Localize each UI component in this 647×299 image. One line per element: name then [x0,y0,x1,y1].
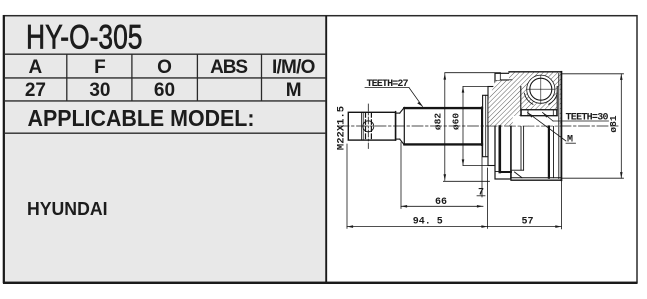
column line A|F [66,54,68,101]
thread dashed line left [365,113,367,140]
band bottom inner line [495,171,511,173]
svg-text:ABS: ABS [210,57,248,78]
svg-text:94. 5: 94. 5 [413,216,443,227]
bore wall lower right thick [548,127,550,178]
teeth=30 leader [553,120,609,122]
bell top edge [509,71,561,73]
table row line under header [4,77,326,79]
cage edge lower left 2 [523,127,525,171]
bell housing hatched section [488,72,561,126]
bore bottom [500,171,511,173]
bottom border thick [3,282,638,284]
ball cross vertical [540,76,542,104]
threaded stub body [348,112,395,140]
shaft end face [481,108,483,146]
lower chamfer [515,172,523,178]
dia60 extension top [463,86,488,88]
thread line 2 [362,113,364,140]
svg-text:HYUNDAI: HYUNDAI [27,198,108,219]
race bottom white band [521,110,556,116]
svg-text:TEETH=27: TEETH=27 [367,79,409,90]
race right face [556,87,558,116]
cavity white below race [513,116,559,126]
column line F|O [131,54,133,101]
ball [530,78,552,100]
svg-text:APPLICABLE MODEL:: APPLICABLE MODEL: [28,105,255,131]
race band line [521,109,557,111]
svg-text:M: M [567,135,573,146]
boot rib 1 [483,95,488,156]
94.5 dimension line [347,226,488,228]
66 dimension line [401,205,483,207]
bell bottom inner edge [511,177,562,179]
taper bottom [400,139,405,145]
7 extension left [481,145,483,197]
thread dashed line right [370,113,372,140]
svg-text:7: 7 [478,187,484,198]
dia81 dimension line [620,74,622,178]
svg-text:M: M [286,80,302,101]
dia82 dimension line [444,73,446,180]
teeth=27 leader [365,87,409,89]
7 underline [477,195,485,197]
left table panel gray background [4,16,326,282]
7 extension right [487,168,489,228]
cage lower shelf [511,169,524,171]
spline bore wall right thick [510,127,512,178]
svg-text:ø60: ø60 [451,113,462,130]
svg-text:ø82: ø82 [433,113,444,130]
svg-text:66: 66 [435,197,447,208]
57 extension right [560,181,562,229]
ball cross horizontal [527,88,555,90]
cage edge lower left 1 [520,127,522,171]
svg-text:ø81: ø81 [608,115,619,132]
panel divider [325,16,327,283]
svg-text:M22X1.5: M22X1.5 [336,106,348,150]
race band bottom [521,115,557,117]
svg-text:O: O [157,57,172,78]
dia82 bottom extension [443,180,489,182]
dia81 extension top [561,73,623,75]
thread circle mark [363,121,374,132]
stub vertical centerline [367,104,369,149]
bell right face [560,72,562,180]
57 dimension line [488,226,562,228]
dia60 dimension line [462,87,464,166]
M leader [566,142,576,144]
dia81 extension bottom [561,177,623,179]
dia60 extension bottom [463,165,488,167]
race left face [520,87,522,116]
table row line under title [4,53,326,55]
svg-text:30: 30 [89,80,110,101]
race sphere arc right [549,93,558,104]
bell right inner line [558,74,560,179]
spline bore wall left thick [498,127,501,173]
spline top thick edge [404,107,482,109]
svg-text:60: 60 [154,80,175,101]
race sphere arc left [524,93,533,104]
lower inner line right [553,127,555,178]
race band tick left [527,110,529,116]
bell bottom edge [511,179,561,181]
94.5 extension left [346,144,348,228]
spline bottom thick edge [404,143,482,145]
neck top [396,112,400,114]
svg-text:27: 27 [25,80,46,101]
neck bottom [396,138,400,140]
rib inner line [485,95,487,156]
band top inner line [495,80,511,82]
taper top [400,107,405,113]
clamp band dia82 [495,73,511,179]
svg-text:I/M/O: I/M/O [272,57,316,78]
race band tick right [552,110,554,116]
right sliver white [557,88,560,126]
table row line under values [4,100,326,102]
svg-text:TEETH=30: TEETH=30 [566,113,609,124]
svg-text:A: A [29,57,43,78]
column line ABS|IMO [261,54,263,101]
dia82 extension line [445,72,501,74]
66 extension left [400,143,402,209]
boot land dia60 [488,87,495,166]
column line O|ABS [196,54,198,101]
main horizontal centerline [338,125,618,127]
svg-text:F: F [94,57,106,78]
splined shaft teeth=27 [404,108,482,146]
table row line under applicable model [4,132,326,134]
thread line 1 [361,113,363,140]
svg-text:HY-O-305: HY-O-305 [26,18,143,56]
step at stub end [395,112,397,141]
left border thick [3,15,5,283]
cage pocket white ring [527,75,555,103]
svg-text:57: 57 [521,216,533,227]
